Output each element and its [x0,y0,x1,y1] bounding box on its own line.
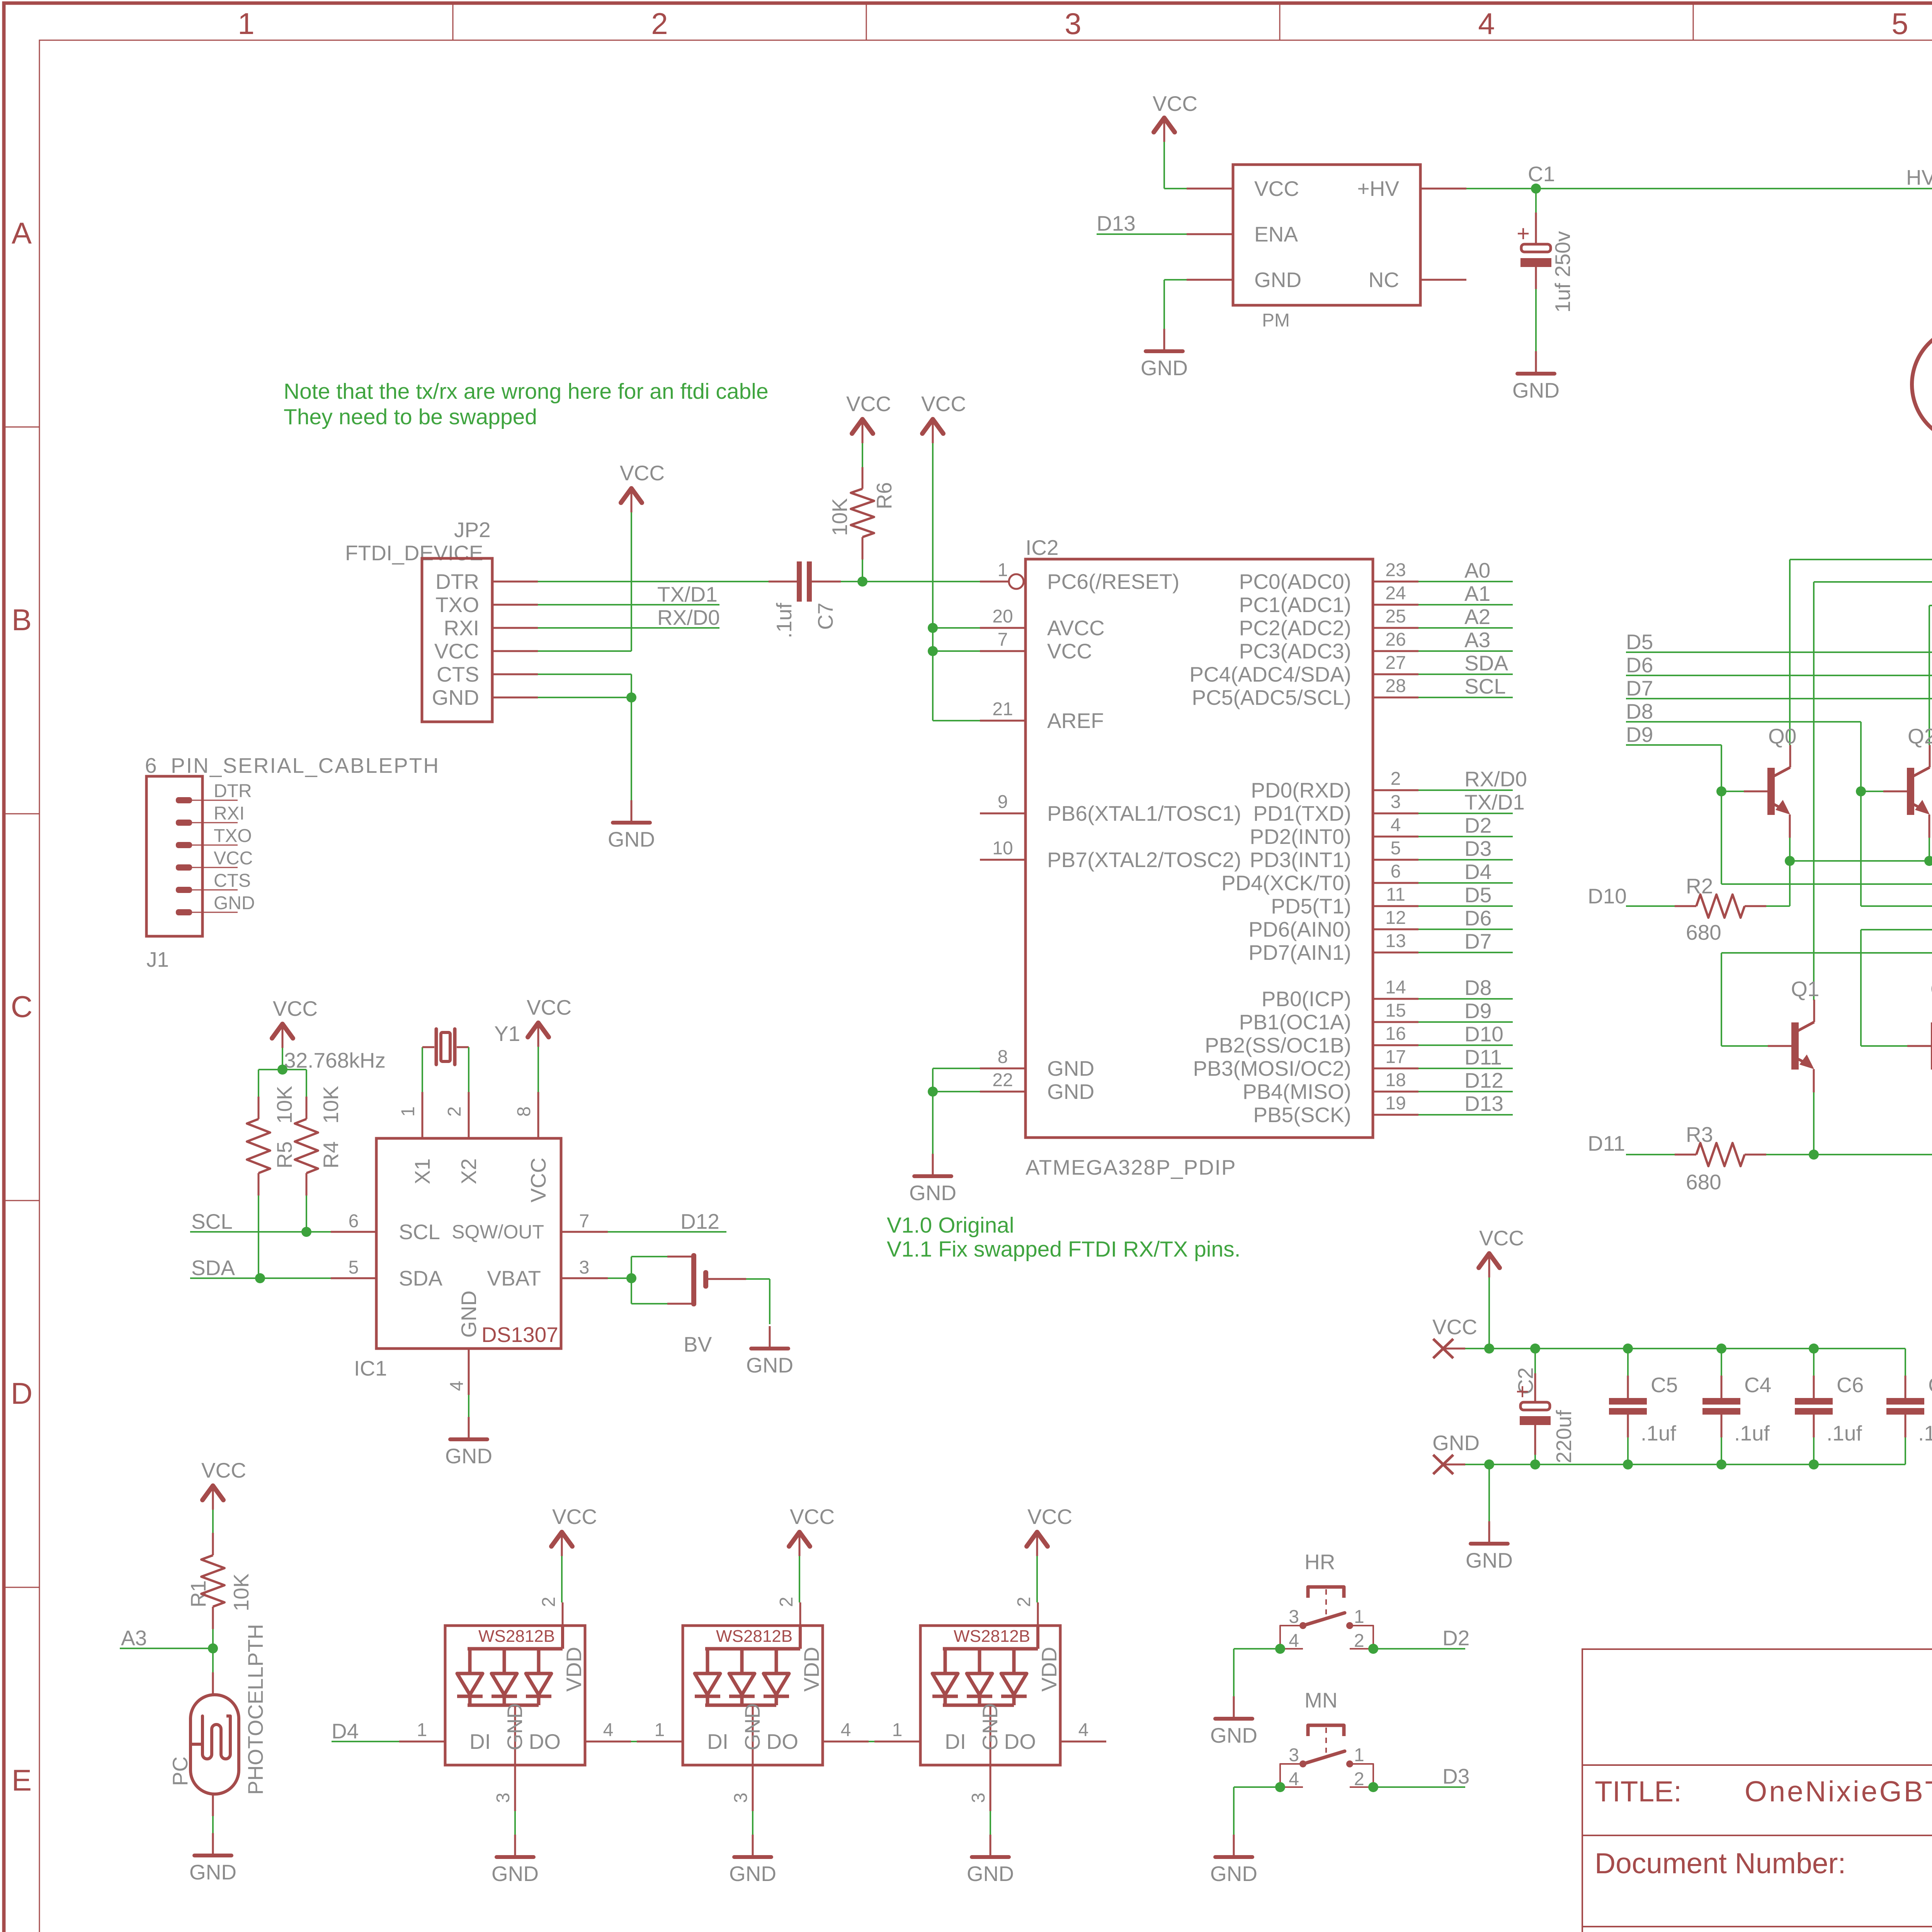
svg-text:VDD: VDD [562,1647,586,1692]
svg-text:VCC: VCC [846,392,891,416]
svg-text:B: B [12,603,32,637]
svg-text:GND: GND [909,1181,956,1205]
svg-text:Document Number:: Document Number: [1595,1847,1846,1879]
svg-text:1: 1 [892,1720,903,1740]
svg-text:23: 23 [1385,560,1406,580]
svg-text:PB0(ICP): PB0(ICP) [1262,987,1351,1011]
svg-text:4: 4 [1078,1720,1089,1740]
svg-text:GND: GND [978,1703,1002,1750]
svg-text:PM: PM [1262,310,1290,331]
svg-text:SDA: SDA [399,1266,442,1290]
capacitor C6 [1809,1344,1819,1354]
pin CTS of JP2 [492,673,538,675]
svg-text:.1uf: .1uf [1734,1421,1770,1445]
svg-text:8: 8 [998,1047,1008,1067]
svg-text:DTR: DTR [435,570,479,594]
svg-text:13: 13 [1385,931,1406,951]
svg-text:PC4(ADC4/SDA): PC4(ADC4/SDA) [1189,662,1351,686]
svg-text:X1: X1 [410,1158,434,1184]
pin 21 AREF [980,720,1026,722]
svg-text:AVCC: AVCC [1047,616,1105,640]
svg-text:TXO: TXO [214,826,252,846]
pin 3 PD1(TXD) net TX/D1 [1373,813,1418,815]
pin VCC of IC1 [537,1092,539,1138]
svg-text:VCC: VCC [790,1505,835,1529]
svg-text:RX/D0: RX/D0 [1464,767,1527,791]
svg-text:GND: GND [1047,1056,1094,1080]
wire D7 net [1626,698,1932,699]
svg-text:3: 3 [1289,1745,1299,1765]
svg-text:PB1(OC1A): PB1(OC1A) [1239,1010,1351,1034]
svg-text:R4: R4 [319,1141,343,1168]
svg-text:SDA: SDA [1464,651,1508,675]
svg-text:16: 16 [1385,1024,1406,1044]
svg-text:3: 3 [731,1793,751,1803]
svg-text:GND: GND [457,1291,481,1338]
svg-text:12: 12 [1385,908,1406,928]
wire DTR to C7 [538,581,769,582]
svg-text:C4: C4 [1744,1373,1771,1397]
svg-text:4: 4 [447,1381,467,1391]
svg-text:D6: D6 [1626,653,1653,677]
junction C7-R6 [857,577,867,587]
svg-text:AREF: AREF [1047,709,1104,733]
wire DO1 to DI2 [631,1741,637,1742]
led diode 242 in module 3 [1012,1649,1016,1673]
svg-text:D8: D8 [1626,699,1653,723]
svg-text:GND: GND [1210,1723,1257,1747]
svg-text:680: 680 [1686,1170,1721,1194]
svg-text:MN: MN [1304,1688,1338,1712]
svg-text:D10: D10 [1464,1022,1503,1046]
svg-text:24: 24 [1385,583,1406,604]
wire VCC to PM [1163,142,1165,189]
svg-text:PD4(XCK/T0): PD4(XCK/T0) [1221,871,1351,895]
wire FTDI VCC [631,512,632,651]
svg-text:VCC: VCC [1479,1226,1524,1250]
svg-text:A: A [12,216,32,250]
module WS2812B 2 [683,1626,823,1765]
ground GND for FTDI [631,800,633,823]
svg-text:D9: D9 [1464,999,1492,1023]
ground GND for PC [212,1833,214,1855]
svg-text:C1: C1 [1528,162,1555,186]
svg-text:D13: D13 [1464,1092,1503,1116]
svg-text:WS2812B: WS2812B [716,1627,793,1646]
svg-text:2: 2 [1391,769,1401,789]
svg-text:A0: A0 [1464,558,1490,582]
svg-text:6_PIN_SERIAL_CABLEPTH: 6_PIN_SERIAL_CABLEPTH [145,753,440,777]
svg-text:They need to be swapped: They need to be swapped [284,405,537,429]
ground GND for battery [769,1326,771,1349]
svg-text:1uf 250v: 1uf 250v [1551,231,1575,313]
svg-text:IC2: IC2 [1026,536,1059,560]
junction at C1 [1531,184,1541,194]
wire top emitter bus [1790,860,1932,862]
pin VDD module 1 [561,1626,564,1649]
pin DTR of JP2 [492,581,538,583]
pin TXO of JP2 [492,604,538,606]
svg-text:ENA: ENA [1254,222,1298,246]
pin 19 PB5(SCK) net D13 [1373,1114,1418,1116]
svg-text:Q0: Q0 [1768,724,1796,748]
svg-text:TX/D1: TX/D1 [657,582,718,606]
svg-text:GND: GND [967,1862,1014,1886]
svg-text:RXI: RXI [444,616,479,640]
pin GND module 1 [514,1705,516,1765]
svg-text:4: 4 [603,1720,614,1740]
svg-text:C10: C10 [1928,1373,1932,1397]
svg-text:2: 2 [1354,1631,1364,1651]
svg-text:2: 2 [1014,1597,1034,1607]
pin DI module 1 [399,1741,445,1743]
svg-text:DTR: DTR [214,781,252,801]
svg-text:D12: D12 [1464,1068,1503,1092]
photocell PC [212,1648,214,1672]
svg-text:PD5(T1): PD5(T1) [1271,894,1351,918]
svg-text:JP2: JP2 [454,518,491,542]
svg-text:17: 17 [1385,1047,1406,1067]
svg-text:D2: D2 [1464,813,1492,837]
svg-text:Q3: Q3 [1930,977,1932,1001]
led diode 64 in module 3 [944,1649,947,1673]
svg-text:D5: D5 [1464,883,1492,907]
svg-text:VCC: VCC [552,1505,597,1529]
svg-text:8: 8 [514,1106,534,1117]
svg-text:DI: DI [469,1730,491,1753]
svg-text:GND: GND [1047,1080,1094,1104]
svg-text:14: 14 [1385,977,1406,998]
svg-text:D4: D4 [1464,860,1492,884]
pin VDD module 3 [1036,1626,1039,1649]
svg-text:.1uf: .1uf [1827,1421,1862,1445]
svg-text:VCC: VCC [526,1158,550,1202]
svg-text:VCC: VCC [1047,639,1092,663]
svg-text:2: 2 [539,1597,559,1607]
svg-text:GND: GND [740,1703,764,1750]
wire PM GND pin [1187,279,1233,281]
svg-text:C6: C6 [1837,1373,1864,1397]
svg-text:OneNixieGBTH_V11: OneNixieGBTH_V11 [1745,1775,1932,1808]
svg-text:680: 680 [1686,920,1721,944]
svg-text:9: 9 [998,792,1008,812]
svg-text:Note that the tx/rx are wrong: Note that the tx/rx are wrong here for a… [284,379,769,404]
svg-text:Q1: Q1 [1791,977,1819,1001]
svg-text:GND: GND [1210,1862,1257,1886]
svg-text:10: 10 [992,838,1013,859]
wire HR to GND [1234,1648,1280,1650]
svg-text:BV: BV [684,1332,712,1356]
pin 1 PC6(/RESET) [980,581,1009,583]
pin RXI of JP2 [492,627,538,629]
svg-text:GND: GND [214,893,255,913]
svg-text:7: 7 [579,1211,590,1231]
pin DI module 2 [637,1741,683,1743]
pin DO module 3 [1060,1741,1106,1743]
svg-text:PB2(SS/OC1B): PB2(SS/OC1B) [1205,1033,1351,1057]
svg-text:GND: GND [608,827,655,851]
svg-text:SCL: SCL [399,1220,440,1244]
svg-text:A1: A1 [1464,582,1490,605]
svg-text:PD1(TXD): PD1(TXD) [1253,801,1351,825]
pin 8 GND [980,1068,1026,1070]
svg-text:3: 3 [1065,7,1081,41]
svg-text:A2: A2 [1464,605,1490,629]
pin 15 PB1(OC1A) net D9 [1373,1021,1418,1023]
svg-text:DO: DO [529,1730,561,1753]
svg-text:SCL: SCL [191,1209,233,1233]
svg-text:2: 2 [444,1106,465,1117]
ground GND module 1 [514,1835,516,1857]
ground GND for MN [1233,1835,1235,1857]
led diode 153 in module 1 [503,1649,506,1673]
svg-text:SCL: SCL [1464,674,1506,698]
svg-text:ATMEGA328P_PDIP: ATMEGA328P_PDIP [1026,1155,1236,1179]
svg-text:Q2: Q2 [1908,724,1932,748]
wire pullup tops to VCC [259,1069,306,1070]
pin 13 PD7(AIN1) net D7 [1373,952,1418,954]
svg-text:10K: 10K [828,498,852,536]
svg-text:PB4(MISO): PB4(MISO) [1243,1080,1351,1104]
svg-text:PD6(AIN0): PD6(AIN0) [1248,917,1351,941]
svg-text:D13: D13 [1097,211,1136,235]
pin GND of JP2 [492,697,538,699]
svg-text:GND: GND [1141,356,1188,380]
svg-text:GND: GND [445,1444,492,1468]
pin VDD module 2 [799,1626,802,1649]
wire IC2 pin1 reset net [862,581,980,582]
pin 24 PC1(ADC1) net A1 [1373,604,1418,606]
svg-text:R1: R1 [186,1580,210,1607]
svg-text:GND: GND [1254,268,1301,292]
net RX/D0 [538,627,719,629]
svg-text:DI: DI [945,1730,966,1753]
svg-text:VBAT: VBAT [487,1266,541,1290]
svg-text:GND: GND [503,1703,527,1750]
svg-text:DO: DO [1004,1730,1036,1753]
led diode 64 in module 1 [468,1649,472,1673]
svg-text:6: 6 [349,1211,359,1231]
wire +HV net [1466,188,1932,189]
svg-text:GND: GND [746,1353,793,1377]
svg-text:VDD: VDD [1037,1647,1061,1692]
svg-text:A3: A3 [121,1626,147,1650]
pin 17 PB3(MOSI/OC2) net D11 [1373,1068,1418,1070]
pin 11 PD5(T1) net D5 [1373,905,1418,907]
ground GND for PM [1163,329,1165,351]
svg-text:GND: GND [432,685,479,709]
svg-text:VCC: VCC [1254,177,1299,201]
pin 18 PB4(MISO) net D12 [1373,1091,1418,1093]
svg-text:WS2812B: WS2812B [478,1627,555,1646]
pin 20 AVCC [980,627,1026,629]
svg-text:WS2812B: WS2812B [954,1627,1030,1646]
svg-text:3: 3 [1391,792,1401,812]
wire VCC to AVCC and AREF [932,443,934,721]
module WS2812B 1 [445,1626,585,1765]
svg-text:TX/D1: TX/D1 [1464,790,1525,814]
svg-text:SDA: SDA [191,1256,235,1280]
wire D13 to ENA [1097,233,1187,235]
svg-text:D11: D11 [1464,1045,1502,1069]
svg-text:4: 4 [1391,815,1401,835]
svg-text:VCC: VCC [620,461,665,485]
svg-text:2: 2 [651,7,668,41]
svg-text:D3: D3 [1442,1764,1469,1788]
title block [1582,1649,1932,1932]
wire DO2 to DI3 [869,1741,874,1742]
svg-text:7: 7 [998,629,1008,650]
svg-text:D5: D5 [1626,630,1653,654]
svg-text:+HV: +HV [1357,177,1399,201]
ground GND for IC1 [468,1417,470,1439]
svg-text:D7: D7 [1464,929,1492,953]
led diode 153 in module 3 [978,1649,981,1673]
svg-text:RXI: RXI [214,803,245,824]
svg-text:GND: GND [729,1862,776,1886]
svg-text:PB3(MOSI/OC2): PB3(MOSI/OC2) [1193,1056,1351,1080]
svg-text:GND: GND [1466,1548,1513,1572]
svg-text:VCC: VCC [1153,92,1197,116]
svg-text:PC3(ADC3): PC3(ADC3) [1239,639,1351,663]
svg-text:IC1: IC1 [354,1356,387,1380]
pin DO module 1 [585,1741,631,1743]
svg-text:10K: 10K [229,1573,253,1611]
net D3 [1368,1782,1378,1792]
svg-text:VCC: VCC [1432,1315,1477,1339]
pin 27 PC4(ADC4/SDA) net SDA [1373,673,1418,675]
svg-text:PC6(/RESET): PC6(/RESET) [1047,570,1179,594]
svg-text:J1: J1 [146,947,169,971]
pin GND module 2 [752,1705,754,1765]
svg-text:D: D [11,1376,32,1410]
svg-text:20: 20 [992,606,1013,627]
svg-text:RX/D0: RX/D0 [657,605,720,629]
svg-text:PC0(ADC0): PC0(ADC0) [1239,570,1351,594]
svg-text:VDD: VDD [799,1647,823,1692]
capacitor C5 [1623,1344,1633,1354]
pin GND of J1 [176,909,192,915]
pin DO module 2 [823,1741,869,1743]
ground GND for rail [1484,1459,1494,1469]
svg-text:27: 27 [1385,653,1406,673]
svg-text:D7: D7 [1626,676,1653,700]
svg-text:11: 11 [1386,884,1405,905]
pin DTR of J1 [176,797,192,803]
svg-text:SQW/OUT: SQW/OUT [452,1221,544,1243]
svg-text:VCC: VCC [273,997,318,1020]
svg-text:1: 1 [1354,1607,1364,1627]
svg-text:GND: GND [1512,378,1560,402]
ground GND for C1 [1535,351,1537,374]
svg-text:1: 1 [998,560,1008,580]
wire IC2 GND pins [933,1068,980,1069]
svg-text:PB7(XTAL2/TOSC2): PB7(XTAL2/TOSC2) [1047,848,1241,872]
pin X2 [468,1092,470,1138]
svg-text:25: 25 [1385,606,1406,627]
svg-text:DI: DI [707,1730,728,1753]
svg-text:PD3(INT1): PD3(INT1) [1250,848,1351,872]
svg-text:A3: A3 [1464,628,1490,652]
svg-text:15: 15 [1385,1000,1406,1021]
pin DI module 3 [874,1741,920,1743]
svg-text:4: 4 [1478,7,1495,41]
led diode 64 in module 2 [706,1649,709,1673]
svg-text:DO: DO [767,1730,799,1753]
svg-text:5: 5 [1391,838,1401,859]
ground GND module 2 [752,1835,754,1857]
svg-text:10K: 10K [272,1086,296,1124]
svg-text:+: + [1517,221,1530,246]
svg-text:10K: 10K [319,1086,343,1124]
pin +HV [1420,188,1466,190]
svg-text:18: 18 [1385,1070,1406,1090]
svg-text:CTS: CTS [437,662,479,686]
ground GND module 3 [990,1835,992,1857]
svg-text:5: 5 [1891,7,1908,41]
pin 5 PD3(INT1) net D3 [1373,859,1418,861]
pin 4 PD2(INT0) net D2 [1373,836,1418,838]
svg-text:3: 3 [1289,1607,1299,1627]
svg-text:2: 2 [776,1597,797,1607]
wire D8 net [1626,721,1861,723]
ic IC1 DS1307 [376,1138,561,1349]
svg-text:6: 6 [1391,861,1401,882]
svg-text:D2: D2 [1442,1626,1469,1650]
svg-text:R5: R5 [272,1141,296,1168]
pin 10 PB7(XTAL2/TOSC2) [980,859,1026,861]
svg-text:+: + [1516,1379,1529,1404]
svg-text:X2: X2 [457,1158,481,1184]
svg-text:D6: D6 [1464,906,1492,930]
svg-text:GND: GND [1432,1431,1480,1455]
svg-text:.1uf: .1uf [772,603,796,638]
svg-text:VCC: VCC [921,392,966,416]
svg-text:1: 1 [238,7,254,41]
svg-text:1: 1 [1354,1745,1364,1765]
pin NC stub [1420,279,1466,281]
pin CTS of J1 [176,887,192,893]
pin X1 [422,1092,423,1138]
svg-text:Y1: Y1 [494,1022,520,1046]
svg-text:E: E [12,1763,32,1797]
svg-text:VCC: VCC [527,995,571,1019]
svg-text:22: 22 [992,1070,1013,1090]
pin 26 PC3(ADC3) net A3 [1373,650,1418,652]
wire bottom emitter bus [1814,1154,1932,1155]
svg-text:21: 21 [992,699,1013,719]
svg-text:TXO: TXO [435,593,479,617]
svg-text:TITLE:: TITLE: [1595,1775,1682,1808]
pin GND module 3 [990,1705,992,1765]
svg-text:HR: HR [1304,1550,1335,1574]
net D2 [1368,1644,1378,1654]
capacitor C4 [1716,1344,1726,1354]
pin 14 PB0(ICP) net D8 [1373,998,1418,1000]
pin 16 PB2(SS/OC1B) net D10 [1373,1044,1418,1046]
svg-text:V1.0 Original: V1.0 Original [887,1213,1014,1238]
svg-text:FTDI_DEVICE: FTDI_DEVICE [345,541,483,565]
svg-text:PC5(ADC5/SCL): PC5(ADC5/SCL) [1192,685,1351,709]
module PM [1233,165,1420,305]
svg-text:R6: R6 [872,482,896,509]
svg-text:PB5(SCK): PB5(SCK) [1253,1103,1351,1127]
svg-text:.1uf: .1uf [1641,1421,1676,1445]
svg-text:3: 3 [968,1793,989,1803]
svg-text:D10: D10 [1588,884,1627,908]
svg-text:D4: D4 [332,1719,359,1743]
svg-text:.1uf: .1uf [1918,1421,1932,1445]
